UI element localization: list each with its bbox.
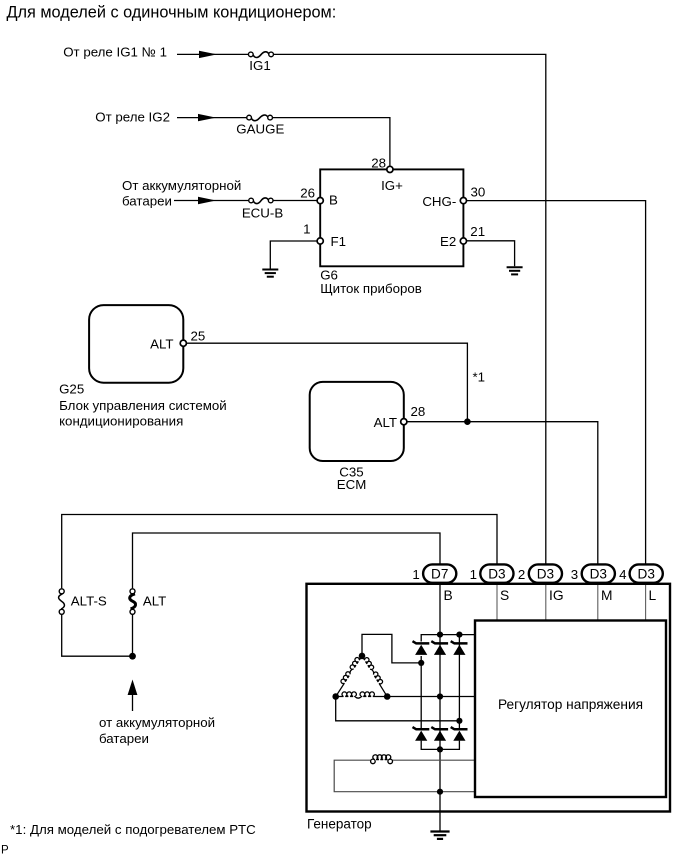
svg-text:CHG-: CHG- xyxy=(422,194,456,209)
svg-text:Регулятор напряжения: Регулятор напряжения xyxy=(498,697,643,712)
svg-text:батареи: батареи xyxy=(122,194,172,209)
node: B+ rail / B line xyxy=(437,632,443,638)
connector D3 pin 4 (L) xyxy=(630,564,663,582)
svg-text:ECM: ECM xyxy=(337,477,367,492)
svg-text:*1: Для моделей с подогревател: *1: Для моделей с подогревателем PTC xyxy=(10,822,256,837)
svg-text:B: B xyxy=(444,588,453,603)
pin 1 (F1) xyxy=(317,238,323,244)
svg-text:1: 1 xyxy=(412,567,419,582)
svg-text:Генератор: Генератор xyxy=(307,816,372,831)
svg-text:От аккумуляторной: От аккумуляторной xyxy=(122,178,241,193)
voltage regulator box xyxy=(475,621,666,798)
svg-text:4: 4 xyxy=(619,567,626,582)
wire: field coil right lead to regulator xyxy=(392,759,475,761)
svg-text:1: 1 xyxy=(470,567,477,582)
fuse GAUGE xyxy=(247,115,273,121)
svg-text:ALT-S: ALT-S xyxy=(71,594,107,609)
fusible link ALT-S xyxy=(59,589,65,615)
svg-text:батареи: батареи xyxy=(99,731,149,746)
svg-text:GAUGE: GAUGE xyxy=(236,122,284,137)
wire: fusible link ALT-S lower lead xyxy=(62,615,130,656)
svg-text:кондиционирования: кондиционирования xyxy=(59,414,183,429)
generator box xyxy=(307,584,671,812)
wire: stator apex to left phase node xyxy=(362,634,421,663)
node: field loop / B line xyxy=(437,789,443,795)
pin 25 (ALT) of G25 xyxy=(180,340,186,346)
node: middle phase / stator bottom wire xyxy=(437,693,443,699)
svg-text:IG: IG xyxy=(549,588,564,603)
A/C amplifier G25 box xyxy=(89,305,183,383)
wire: B+ rail to rectifier and regulator xyxy=(421,635,475,642)
svg-text:3: 3 xyxy=(571,567,578,582)
rectifier diode top 3 xyxy=(451,641,468,655)
rectifier diode top 1 xyxy=(413,641,430,655)
node: right phase / stator wire xyxy=(456,718,462,724)
svg-text:E2: E2 xyxy=(440,234,456,249)
svg-text:*1: *1 xyxy=(473,369,486,384)
svg-text:D3: D3 xyxy=(590,567,607,582)
svg-text:IG+: IG+ xyxy=(381,178,403,193)
stator delta vertex top xyxy=(359,653,366,660)
wire: fusible link ALT to connector D7 / B xyxy=(133,533,441,588)
svg-text:2: 2 xyxy=(518,567,525,582)
wire: IG into regulator xyxy=(545,566,547,584)
svg-text:ALT: ALT xyxy=(150,336,173,351)
wire: fusible link ALT-S to connector D3-1 / S xyxy=(62,515,497,589)
rectifier diode bottom 3 xyxy=(451,727,468,741)
svg-text:IG1: IG1 xyxy=(249,58,270,73)
svg-text:28: 28 xyxy=(371,156,386,171)
svg-text:ALT: ALT xyxy=(143,594,166,609)
svg-text:26: 26 xyxy=(300,186,315,201)
node: left phase / stator apex xyxy=(418,660,424,666)
pin 28 (ALT) of C35 xyxy=(401,419,407,425)
svg-text:S: S xyxy=(500,588,509,603)
connector D3 pin 3 (M) xyxy=(582,564,615,582)
wire: CHG-(30) to connector D3-4 and L xyxy=(467,201,646,566)
svg-text:28: 28 xyxy=(411,404,426,419)
svg-text:30: 30 xyxy=(471,184,486,199)
rotor field coil xyxy=(371,755,393,764)
node: battery junction xyxy=(129,653,136,660)
wire: B line through generator to ground xyxy=(439,566,441,831)
svg-text:Р: Р xyxy=(1,845,9,855)
stator delta vertex bottom-right xyxy=(384,693,391,700)
ground (generator) xyxy=(430,832,449,839)
svg-text:D3: D3 xyxy=(537,567,554,582)
wire: stator bottom-right vertex to regulator xyxy=(387,696,475,698)
svg-text:M: M xyxy=(601,588,613,603)
node: junction *1 wire xyxy=(464,418,471,425)
pin 28 (IG+) xyxy=(387,166,393,172)
rectifier diode top 2 xyxy=(431,641,448,655)
svg-text:1: 1 xyxy=(303,222,310,237)
wire: G25 ALT(25) to node *1 xyxy=(187,343,468,422)
pin 26 (B) xyxy=(317,198,323,204)
fuse ECU-B xyxy=(249,198,273,204)
wire: E2 pin to ground xyxy=(467,241,515,266)
wire: left phase column xyxy=(420,656,422,728)
wire: right phase column xyxy=(458,635,460,729)
svg-text:Щиток приборов: Щиток приборов xyxy=(320,281,422,296)
stator winding right leg xyxy=(362,654,391,697)
wire: field coil left lead loop xyxy=(334,760,475,792)
wire: S into regulator xyxy=(496,566,498,584)
wire: fusible link ALT lower lead to battery node xyxy=(132,615,134,656)
fuse IG1 xyxy=(248,52,273,58)
svg-text:D3: D3 xyxy=(488,567,505,582)
pin 30 (CHG-) xyxy=(460,198,466,204)
wire: L into regulator xyxy=(645,566,647,584)
svg-text:F1: F1 xyxy=(331,234,347,249)
svg-text:От реле IG2: От реле IG2 xyxy=(95,109,170,124)
svg-text:D7: D7 xyxy=(431,567,448,582)
svg-text:Блок управления системой: Блок управления системой xyxy=(59,398,227,413)
ground (E2) xyxy=(507,267,523,274)
arrowhead: from battery (bottom) xyxy=(128,680,138,696)
arrowhead: from battery (ECU-B row) xyxy=(198,197,216,204)
wire: rectifier minus rail xyxy=(421,741,459,750)
svg-text:21: 21 xyxy=(470,224,485,239)
wire: from relay IG2 through fuse GAUGE to pin 28 xyxy=(177,117,247,119)
svg-text:G25: G25 xyxy=(59,382,84,397)
svg-text:От реле IG1 № 1: От реле IG1 № 1 xyxy=(63,44,167,59)
node: minus rail / B line xyxy=(437,746,443,752)
wire: M into regulator xyxy=(597,566,599,584)
stator winding bottom leg xyxy=(336,692,388,698)
svg-text:ECU-B: ECU-B xyxy=(242,205,284,220)
wire: from battery through fuse ECU-B to pin B(26) xyxy=(174,200,249,202)
svg-text:L: L xyxy=(649,588,657,603)
svg-text:B: B xyxy=(329,192,338,207)
rectifier diode bottom 2 xyxy=(431,727,448,741)
rectifier diode bottom 1 xyxy=(413,727,430,741)
ground (F1) xyxy=(262,270,278,277)
combination meter G6 box xyxy=(320,169,463,266)
fusible link ALT (bold element) xyxy=(130,589,136,615)
svg-text:от аккумуляторной: от аккумуляторной xyxy=(99,715,215,730)
svg-text:25: 25 xyxy=(191,328,206,343)
pin 21 (E2) xyxy=(460,238,466,244)
wire: C35 ALT(28) through node to connector D3-3 and M xyxy=(407,422,598,566)
connector D3 pin 1 (S) xyxy=(480,564,513,582)
stator delta vertex bottom-left xyxy=(332,693,339,700)
wire: from relay IG1 to fuse IG1 and down to IG pin xyxy=(177,53,248,55)
wire: stator bottom-left vertex to right phase node xyxy=(336,697,460,721)
svg-text:D3: D3 xyxy=(638,567,655,582)
stator winding left leg xyxy=(332,654,362,697)
svg-text:ALT: ALT xyxy=(374,415,397,430)
node: B+ rail / right diode xyxy=(456,632,462,638)
wire: F1 pin to ground xyxy=(270,241,317,269)
wire: from battery arrow tail xyxy=(132,695,134,712)
connector D3 pin 2 (IG) xyxy=(529,564,562,582)
arrowhead: from relay IG2 xyxy=(198,114,216,121)
svg-text:Для моделей с одиночным кондиц: Для моделей с одиночным кондиционером: xyxy=(7,4,337,22)
connector D7 pin 1 (B) xyxy=(423,564,456,582)
arrowhead: from relay IG1 xyxy=(199,51,217,58)
ECM C35 box xyxy=(310,382,404,461)
